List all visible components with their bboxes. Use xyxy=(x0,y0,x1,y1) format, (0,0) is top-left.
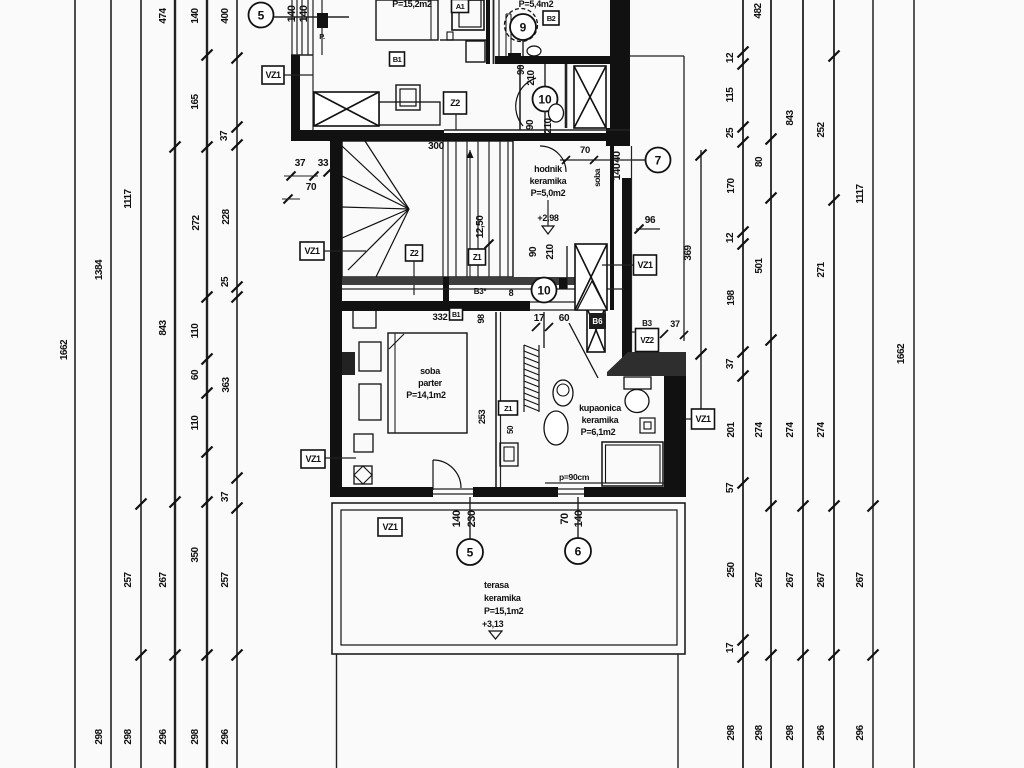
svg-text:P=5,0m2: P=5,0m2 xyxy=(531,188,566,198)
wall corner block below hatch top-right xyxy=(606,128,630,146)
svg-text:keramika: keramika xyxy=(484,593,522,603)
svg-text:257: 257 xyxy=(220,571,231,587)
svg-text:keramika: keramika xyxy=(582,415,620,425)
svg-text:25: 25 xyxy=(725,127,736,138)
svg-text:8: 8 xyxy=(509,288,514,298)
svg-text:298: 298 xyxy=(726,724,737,740)
dim labels line 1117 xyxy=(123,188,134,744)
wall block soba left xyxy=(342,352,355,375)
svg-text:57: 57 xyxy=(725,482,736,493)
hatch box lower right xyxy=(587,308,605,352)
grid bubble 5 top xyxy=(249,3,350,28)
svg-text:267: 267 xyxy=(855,571,866,587)
svg-text:soba: soba xyxy=(420,366,441,376)
svg-text:70: 70 xyxy=(580,145,590,156)
niche wall box top room xyxy=(440,0,486,62)
svg-text:25: 25 xyxy=(220,276,231,287)
label B1 box xyxy=(390,52,405,66)
svg-text:140: 140 xyxy=(190,7,201,23)
dim labels 17 60 row xyxy=(532,313,570,331)
svg-text:250: 250 xyxy=(726,561,737,577)
label VZ1 upper-left with leader xyxy=(284,74,313,76)
svg-text:VZ1: VZ1 xyxy=(265,70,281,80)
stair winder fan lines xyxy=(342,141,409,277)
stool diamond soba xyxy=(354,466,372,484)
door dims 90 210 below bathroom 9 xyxy=(516,64,537,86)
hatch box top-right xyxy=(574,66,606,128)
dim label 369 xyxy=(683,244,694,260)
dim ticks right chain B xyxy=(766,134,777,661)
stair walk line with arrow xyxy=(467,150,474,277)
svg-text:B2: B2 xyxy=(547,14,556,23)
label Z1 box stairs with leader xyxy=(469,249,486,265)
svg-text:210: 210 xyxy=(526,69,537,85)
svg-text:kupaonica: kupaonica xyxy=(579,403,622,413)
dim line right chain B xyxy=(770,0,772,768)
door dim 140 230 terrace xyxy=(451,510,478,527)
terrace outline outer xyxy=(332,503,685,654)
toilet kupaonica xyxy=(624,377,651,413)
label VZ1 box mid-right with leader xyxy=(602,255,657,275)
svg-text:274: 274 xyxy=(785,421,796,437)
wall right kupaonica xyxy=(664,376,686,497)
wall corner band kupaonica xyxy=(607,352,686,376)
sideboard top room xyxy=(379,102,440,125)
wall right exterior top xyxy=(610,0,630,146)
svg-text:110: 110 xyxy=(190,323,201,339)
svg-text:228: 228 xyxy=(221,208,232,224)
svg-text:300: 300 xyxy=(428,141,445,152)
washer box wc xyxy=(500,443,518,466)
svg-text:350: 350 xyxy=(190,546,201,562)
dim line right 1662 xyxy=(913,0,915,768)
svg-text:VZ2: VZ2 xyxy=(640,336,654,345)
dim line right 369 xyxy=(696,150,707,416)
svg-text:363: 363 xyxy=(221,376,232,392)
dim ticks line 140-350 xyxy=(202,50,213,661)
svg-text:267: 267 xyxy=(785,571,796,587)
bench below bed xyxy=(354,434,373,452)
svg-text:298: 298 xyxy=(754,724,765,740)
room label kupaonica xyxy=(579,403,622,437)
svg-text:80: 80 xyxy=(754,156,765,167)
door dims 90 210 mid xyxy=(528,243,556,259)
svg-text:267: 267 xyxy=(158,571,169,587)
svg-text:110: 110 xyxy=(190,415,201,431)
svg-text:hodnik: hodnik xyxy=(534,164,563,174)
svg-text:B3: B3 xyxy=(642,319,652,328)
svg-text:B1: B1 xyxy=(452,312,461,319)
svg-text:90: 90 xyxy=(525,119,536,130)
svg-text:96: 96 xyxy=(645,215,656,226)
wall stub wc xyxy=(543,312,545,348)
svg-text:B3*: B3* xyxy=(474,287,488,296)
svg-text:10: 10 xyxy=(538,93,552,107)
dim ticks line 1117 xyxy=(136,499,147,661)
dim line left 400-363 xyxy=(236,0,238,768)
svg-text:p=90cm: p=90cm xyxy=(559,472,590,482)
label Z1 box wc xyxy=(499,401,518,415)
svg-text:A1: A1 xyxy=(456,2,465,11)
svg-text:230: 230 xyxy=(466,510,478,527)
dim line left 1384 xyxy=(110,0,112,768)
svg-text:Z1: Z1 xyxy=(504,404,512,413)
svg-text:252: 252 xyxy=(816,121,827,137)
svg-text:P=15,2m2: P=15,2m2 xyxy=(392,0,432,9)
dim line left 140-350 xyxy=(206,0,208,768)
door dims 40 140 hodnik xyxy=(611,151,623,180)
staircase outline xyxy=(342,141,513,277)
svg-text:267: 267 xyxy=(754,571,765,587)
svg-text:12: 12 xyxy=(725,232,736,243)
svg-text:257: 257 xyxy=(123,571,134,587)
wall bathroom 10 left xyxy=(519,66,521,130)
duct hatch wc xyxy=(524,345,539,412)
dim labels right chain C xyxy=(785,109,796,740)
svg-text:400: 400 xyxy=(220,7,231,23)
svg-text:332: 332 xyxy=(433,312,448,323)
svg-text:P=5,4m2: P=5,4m2 xyxy=(519,0,554,9)
svg-text:60: 60 xyxy=(190,369,201,380)
svg-text:1117: 1117 xyxy=(855,183,866,203)
svg-text:298: 298 xyxy=(190,728,201,744)
svg-text:70: 70 xyxy=(306,182,317,193)
dim label right 1662 xyxy=(896,343,907,364)
dim leader 96 xyxy=(635,215,661,234)
svg-text:Z1: Z1 xyxy=(473,253,482,262)
wall mid small xyxy=(559,246,567,289)
dim line left 1117 xyxy=(140,0,142,768)
wall left stair side xyxy=(330,141,342,497)
label B2 box xyxy=(543,11,559,25)
svg-text:210: 210 xyxy=(543,117,554,133)
dim labels line 140-350 xyxy=(190,7,202,744)
wc bathroom 9 xyxy=(508,53,521,64)
stair divider stub below stairs xyxy=(443,277,449,302)
dim labels line 1384 xyxy=(94,259,105,745)
door threshold kupaonica-terrace xyxy=(558,489,584,494)
svg-text:296: 296 xyxy=(220,728,231,744)
svg-text:37: 37 xyxy=(725,358,736,369)
svg-text:296: 296 xyxy=(158,728,169,744)
svg-text:298: 298 xyxy=(123,728,134,744)
bathtub kupaonica xyxy=(602,442,663,486)
wc toilet mid xyxy=(553,380,573,406)
svg-text:98: 98 xyxy=(476,314,486,324)
dim ticks right chain C xyxy=(798,501,809,661)
drain square kupaonica xyxy=(640,418,655,433)
hatch box mid-right xyxy=(575,244,607,310)
svg-text:296: 296 xyxy=(855,724,866,740)
wc bathroom 10 xyxy=(549,104,564,122)
svg-text:7: 7 xyxy=(655,154,662,168)
dim labels right chain D xyxy=(816,121,827,740)
svg-text:P=14,1m2: P=14,1m2 xyxy=(406,390,446,400)
dim 253 rotated xyxy=(477,410,515,434)
room label hodnik keramika xyxy=(530,164,568,234)
svg-text:140: 140 xyxy=(573,510,585,527)
svg-text:1117: 1117 xyxy=(123,188,134,208)
stair treads xyxy=(456,141,508,277)
wc sink oval mid xyxy=(544,411,568,445)
label A1 box xyxy=(452,0,469,13)
column P top xyxy=(317,0,328,55)
bed soba xyxy=(388,333,467,433)
wall right hodnik xyxy=(610,146,632,360)
svg-text:843: 843 xyxy=(785,109,796,125)
svg-text:12,50: 12,50 xyxy=(475,215,486,238)
svg-text:terasa: terasa xyxy=(484,580,510,590)
parapet label p=90cm xyxy=(545,472,664,483)
room label P=15,2m2 xyxy=(392,0,432,9)
door dims 90 210 bathroom 10 xyxy=(525,117,554,133)
wall double soba-wc xyxy=(496,312,501,487)
dim label 1662 xyxy=(59,339,70,360)
door dim 70 140 terrace xyxy=(559,510,585,527)
svg-text:70: 70 xyxy=(559,513,571,525)
room label terasa keramika xyxy=(482,580,524,639)
nightstand soba upper xyxy=(359,342,381,371)
door soba to terrace xyxy=(433,460,461,490)
svg-text:298: 298 xyxy=(94,728,105,744)
svg-text:1662: 1662 xyxy=(59,339,70,360)
dim line left 1662 xyxy=(74,0,76,768)
svg-text:Z2: Z2 xyxy=(450,98,460,108)
terrace outline inner xyxy=(341,510,677,645)
dim line right chain A xyxy=(742,0,744,768)
svg-text:482: 482 xyxy=(753,2,764,18)
svg-text:VZ1: VZ1 xyxy=(382,522,398,532)
svg-text:274: 274 xyxy=(754,421,765,437)
svg-text:5: 5 xyxy=(258,9,265,23)
shower lines bathroom 9 xyxy=(506,14,511,57)
svg-text:P=15,1m2: P=15,1m2 xyxy=(484,606,524,616)
hatch box top-left room xyxy=(314,92,379,126)
label VZ1 box terrace xyxy=(378,518,402,536)
label B3 small below stairs xyxy=(474,287,514,298)
dim labels line 400-363 xyxy=(219,7,232,744)
dim line right chain D xyxy=(833,0,835,768)
svg-text:+3,13: +3,13 xyxy=(482,619,504,629)
grid bubble 10 lower xyxy=(532,278,557,303)
svg-text:VZ1: VZ1 xyxy=(305,454,321,464)
dim labels right chain A xyxy=(725,52,737,741)
dim labels right 1117 xyxy=(855,183,866,740)
wall bathroom 10 right xyxy=(565,64,568,128)
svg-text:272: 272 xyxy=(191,214,202,230)
svg-text:VZ1: VZ1 xyxy=(637,260,653,270)
svg-text:1662: 1662 xyxy=(896,343,907,364)
door label soba rotated xyxy=(592,168,602,187)
grid bubble 10 upper with leader xyxy=(533,64,558,141)
svg-text:VZ1: VZ1 xyxy=(304,246,320,256)
svg-text:274: 274 xyxy=(816,421,827,437)
svg-text:501: 501 xyxy=(754,257,765,273)
room label soba parter xyxy=(406,366,446,400)
svg-text:P=6,1m2: P=6,1m2 xyxy=(581,427,616,437)
svg-text:298: 298 xyxy=(785,724,796,740)
walls below terrace xyxy=(337,654,679,768)
svg-text:170: 170 xyxy=(726,177,737,193)
svg-text:37: 37 xyxy=(219,130,230,141)
wall center top vertical xyxy=(486,0,499,64)
label B3 VZ2 boxes right xyxy=(631,319,688,352)
dim ticks right chain A xyxy=(738,47,749,663)
dim line left 474-843 xyxy=(174,0,176,768)
svg-text:B1: B1 xyxy=(393,55,402,64)
window glazing left top xyxy=(291,0,313,55)
svg-text:115: 115 xyxy=(725,87,736,103)
wall below bathroom 9 xyxy=(495,56,630,64)
corridor lines below stairs xyxy=(342,289,624,311)
label Z2 box stairs with leader xyxy=(406,245,423,295)
svg-text:soba: soba xyxy=(592,168,602,187)
dim labels 37 33 70 with leaders xyxy=(282,158,333,204)
svg-text:6: 6 xyxy=(575,545,582,559)
table square top room xyxy=(396,85,420,110)
building outline top-right step xyxy=(630,56,684,341)
nightstand soba lower xyxy=(359,384,381,420)
door triangle mid-right xyxy=(577,281,607,310)
svg-text:271: 271 xyxy=(816,261,827,277)
svg-text:10: 10 xyxy=(537,284,551,298)
svg-text:33: 33 xyxy=(318,158,329,169)
stair flight divider xyxy=(443,141,448,277)
svg-text:1384: 1384 xyxy=(94,259,105,280)
svg-text:keramika: keramika xyxy=(530,176,568,186)
door dim 140 140 top rotated xyxy=(286,5,310,22)
svg-text:267: 267 xyxy=(816,571,827,587)
svg-text:37: 37 xyxy=(670,319,680,329)
grid bubble 6 terrace with leader xyxy=(565,497,591,564)
svg-text:Z2: Z2 xyxy=(410,249,419,258)
svg-text:165: 165 xyxy=(190,93,201,109)
svg-text:9: 9 xyxy=(520,21,527,35)
svg-text:369: 369 xyxy=(683,244,694,260)
dim ticks line 400-363 xyxy=(232,53,243,661)
dim line right chain C xyxy=(802,0,804,768)
grid bubble 7 with leader xyxy=(632,148,671,173)
dim labels line 474-843 xyxy=(158,7,169,744)
dim labels right chain B xyxy=(753,2,765,740)
label VZ1 box far right with leader xyxy=(686,409,715,429)
dim ticks right chain D xyxy=(829,51,840,661)
svg-text:296: 296 xyxy=(816,724,827,740)
svg-text:37: 37 xyxy=(220,491,231,502)
svg-text:210: 210 xyxy=(545,243,556,259)
label box mid B6 xyxy=(589,313,606,329)
wall bottom main xyxy=(330,487,684,497)
svg-text:843: 843 xyxy=(158,319,169,335)
svg-text:37: 37 xyxy=(295,158,306,169)
room label P=5,4m2 xyxy=(519,0,554,9)
svg-text:474: 474 xyxy=(158,7,169,23)
svg-text:5: 5 xyxy=(467,546,474,560)
svg-text:B6: B6 xyxy=(592,317,603,326)
svg-text:253: 253 xyxy=(477,410,488,425)
svg-text:parter: parter xyxy=(418,378,443,388)
stair label 12,50 xyxy=(475,215,494,249)
stair dim 300 xyxy=(428,141,445,152)
bed top room xyxy=(376,0,438,40)
svg-text:201: 201 xyxy=(726,421,737,437)
label VZ1 box stairs with leader xyxy=(300,242,366,260)
shaft box soba top-left xyxy=(353,308,376,328)
label VZ1 box soba with leader xyxy=(301,450,356,468)
svg-text:50: 50 xyxy=(506,425,515,434)
dim ticks line 474-843 xyxy=(170,142,181,661)
svg-text:12: 12 xyxy=(725,52,736,63)
svg-text:60: 60 xyxy=(559,313,570,324)
sink bathroom 9 xyxy=(527,46,541,56)
grid bubble 9 with leader xyxy=(505,9,538,63)
door arc bathroom 10 xyxy=(516,78,536,126)
svg-text:17: 17 xyxy=(725,642,736,653)
wall horizontal main upper xyxy=(291,130,630,141)
door threshold soba-terrace xyxy=(433,489,473,494)
door leader wc xyxy=(569,323,598,378)
dim ticks right 1117 xyxy=(868,501,879,661)
wall below stairs grey band xyxy=(342,277,607,285)
svg-text:198: 198 xyxy=(726,289,737,305)
svg-text:VZ1: VZ1 xyxy=(695,414,711,424)
dim line right 1117 xyxy=(872,0,874,768)
svg-text:140: 140 xyxy=(451,510,463,527)
door arc hodnik top xyxy=(540,146,566,172)
label Z2 box upper with leader xyxy=(444,92,467,130)
dim 70 hodnik xyxy=(560,145,632,164)
grid bubble 5 terrace with leader xyxy=(457,497,483,565)
svg-text:90: 90 xyxy=(528,246,539,257)
wall left exterior upper xyxy=(291,55,313,130)
dim labels 332 98 row xyxy=(433,308,486,324)
